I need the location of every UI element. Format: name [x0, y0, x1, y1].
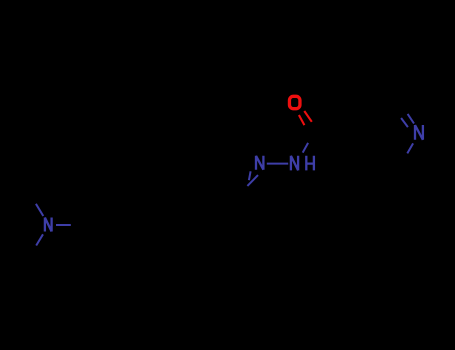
- bond C=O line 2 (red half): [299, 115, 305, 125]
- bond ring C2=N inner line (blue half): [401, 118, 408, 127]
- bond C=N imine main line (blue half): [247, 175, 258, 186]
- bond C=N imine inner line (blue half): [249, 171, 251, 180]
- bond N-C1 ring (blue half): [56, 224, 71, 226]
- bond C=O line 1 (red half): [304, 111, 312, 122]
- bond ring C2=N main line (blue half): [408, 114, 414, 124]
- pyridine ring outline: [330, 95, 419, 174]
- amide N of NH label: [291, 156, 298, 171]
- carbonyl oxygen O label: [289, 96, 300, 108]
- bond N-N hydrazide: [267, 163, 288, 165]
- pyridine nitrogen N label: [415, 125, 423, 140]
- bond NH-C carbonyl (blue half): [303, 143, 308, 153]
- wire: vinyl chain C4-Ca-Cb(imine C): [182, 208, 236, 233]
- dimethylamino nitrogen N (NMe2): [45, 218, 52, 232]
- invisible carbon skeleton (black on black): benzene ring C1-C6: [93, 95, 419, 263]
- wire: carbonyl C to pyridine C4: [322, 123, 378, 140]
- imine nitrogen N label: [256, 156, 263, 170]
- amide H of NH label: [306, 156, 314, 171]
- bond N-CH3 (upper methyl, blue half): [36, 204, 43, 216]
- bond ring N-C6 (blue half): [407, 143, 413, 153]
- bond N-CH3 (lower methyl, blue half): [36, 234, 43, 245]
